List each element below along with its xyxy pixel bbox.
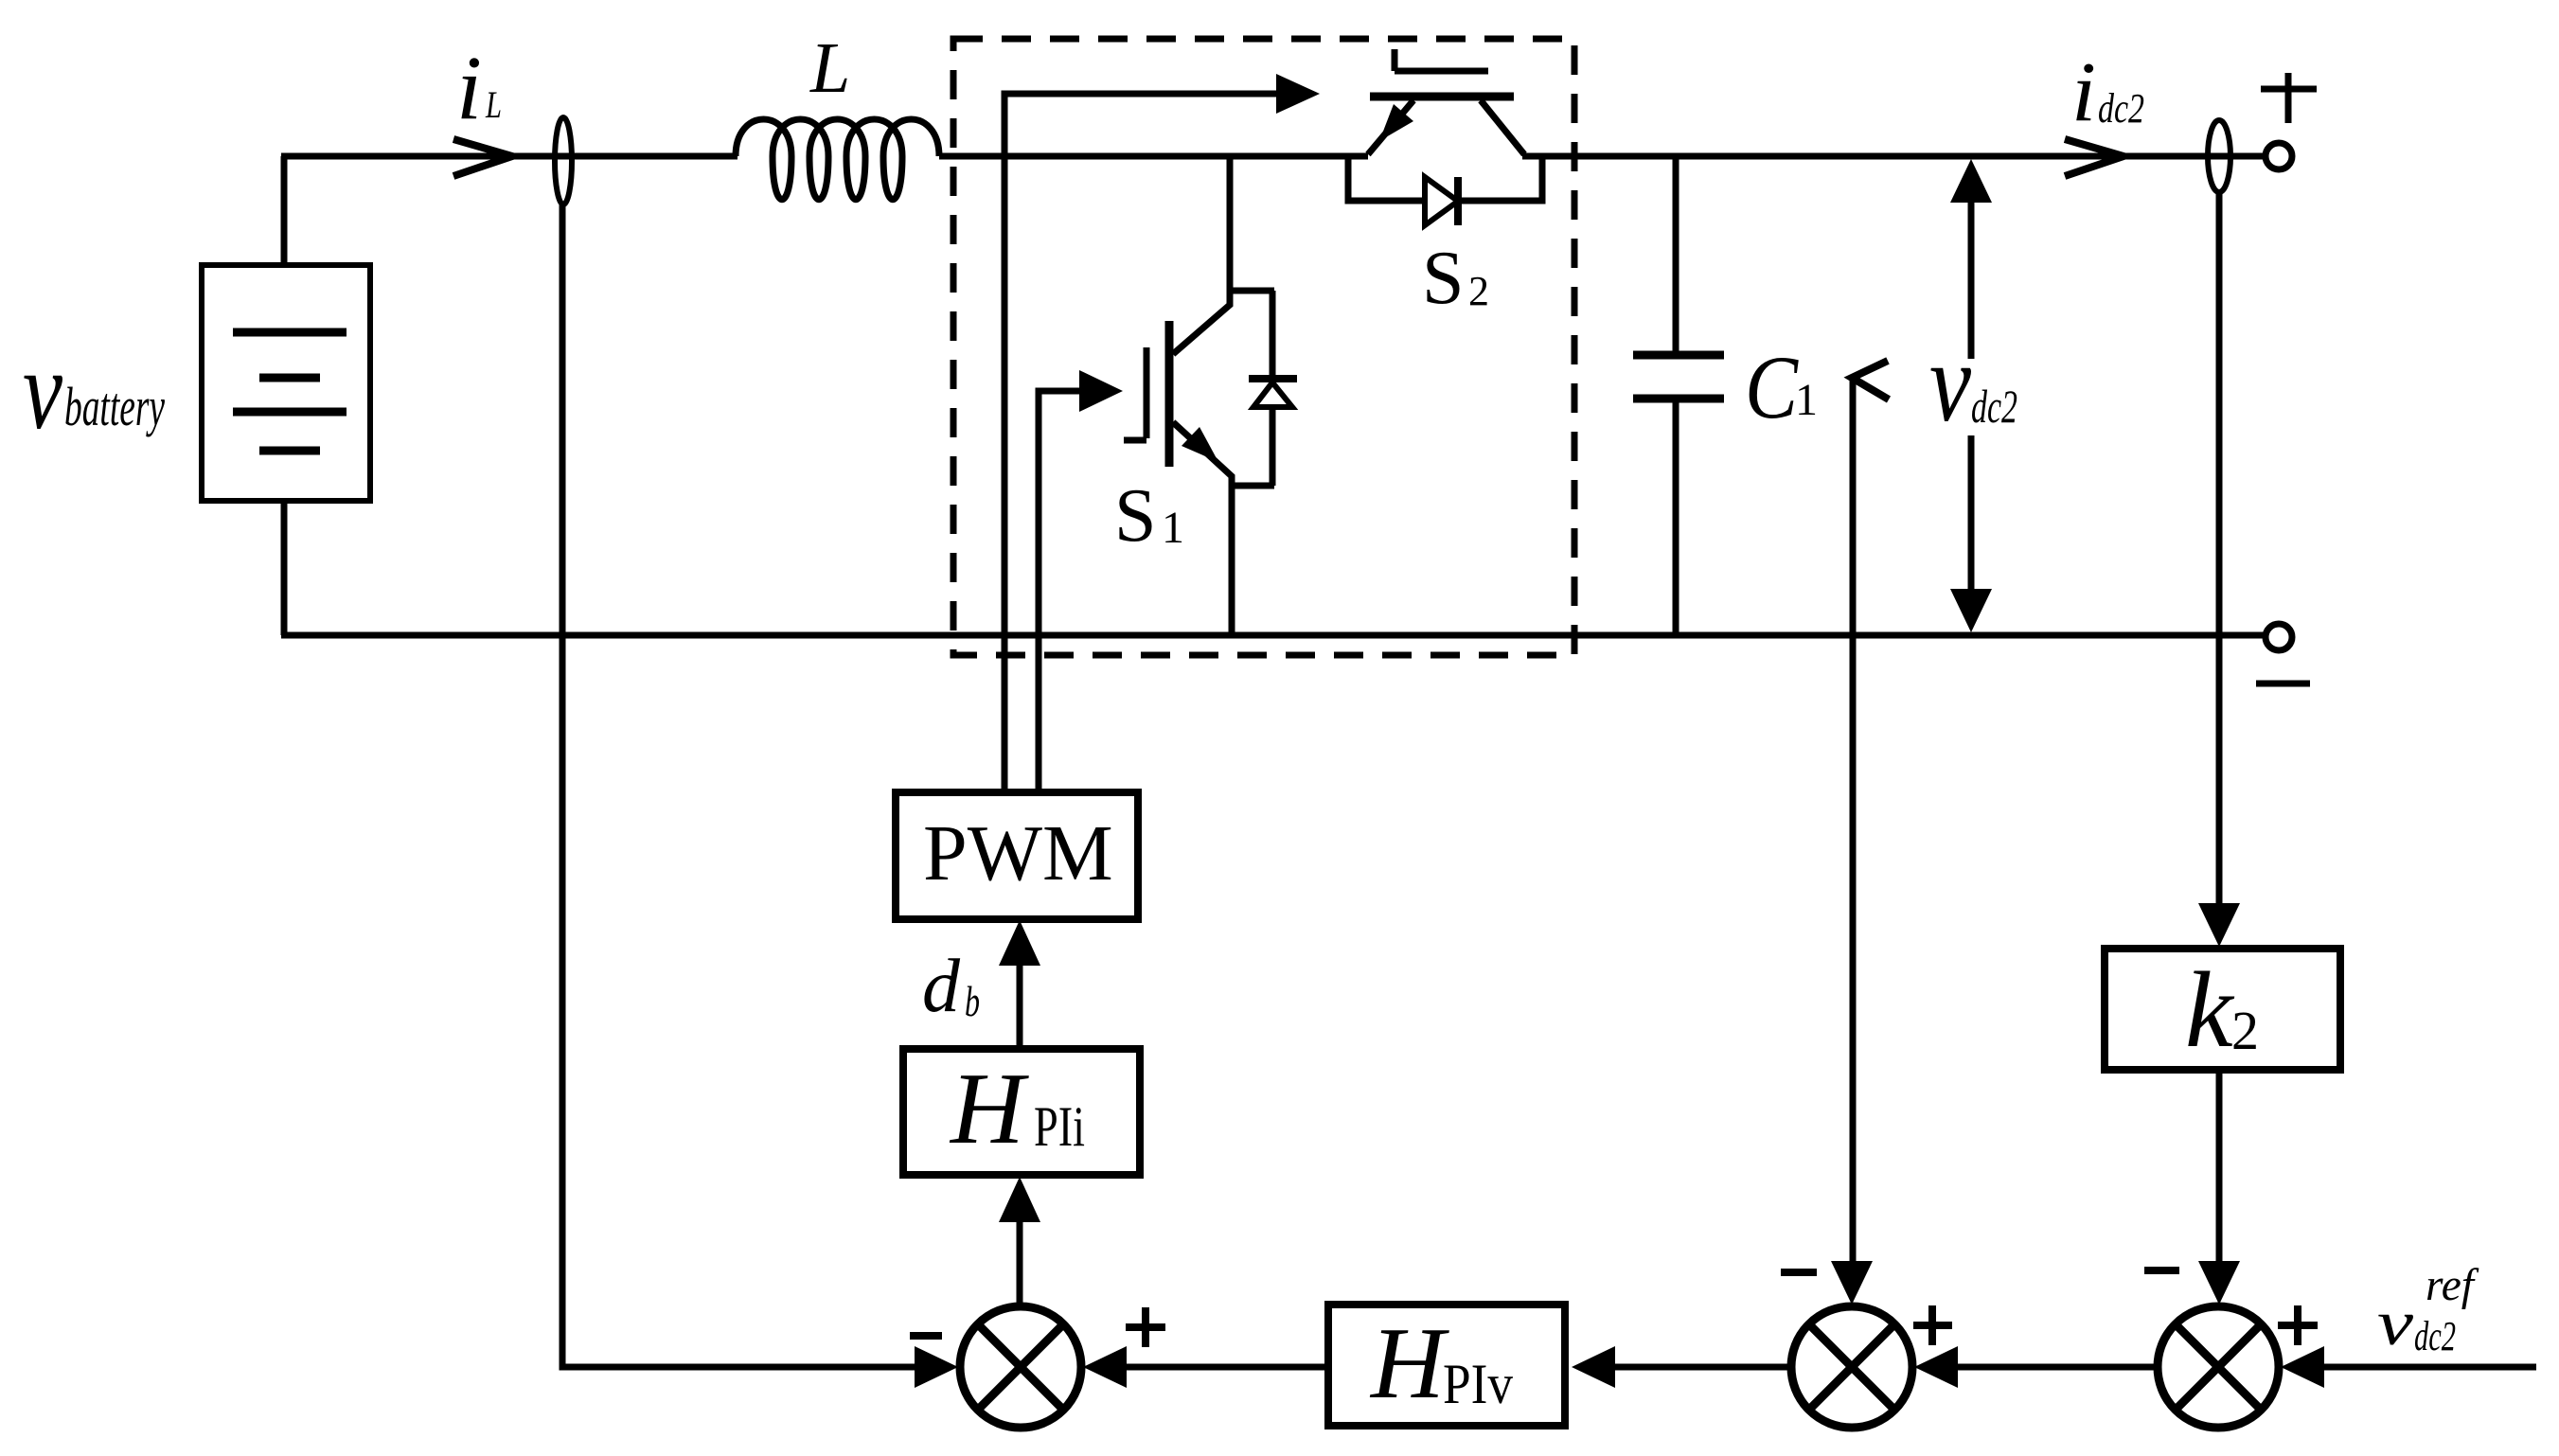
arrowhead into S_i left bbox=[915, 1346, 958, 1388]
wire top bus inductor to S2 bbox=[939, 153, 1368, 160]
capacitor C1 bbox=[1633, 156, 1724, 635]
svg-text:C: C bbox=[1745, 337, 1799, 437]
vdc2 sense tap arrow bbox=[1852, 361, 1889, 400]
arrowhead into HPIv bbox=[1572, 1346, 1615, 1388]
wire vdc2 ref input bbox=[2324, 1364, 2536, 1371]
label plus at S_v bbox=[1913, 1305, 1952, 1345]
svg-text:v: v bbox=[23, 327, 63, 453]
arrow idc2 current direction bbox=[2065, 139, 2124, 176]
wire iL feedback to S_i bbox=[562, 204, 915, 1367]
transistor S2 (IGBT) bbox=[1368, 49, 1524, 154]
arrow iL current direction bbox=[453, 139, 512, 176]
summing junction S_v bbox=[1791, 1306, 1912, 1428]
wire battery bottom lead bbox=[281, 501, 288, 635]
label plus bbox=[2261, 73, 2317, 123]
svg-text:PIv: PIv bbox=[1443, 1353, 1513, 1415]
svg-text:1: 1 bbox=[1162, 503, 1184, 553]
arrowhead k2 into S_ref bbox=[2198, 1261, 2240, 1305]
label plus at S_i bbox=[1126, 1307, 1165, 1347]
arrowhead to S2 gate bbox=[1276, 74, 1320, 114]
svg-text:2: 2 bbox=[2231, 1000, 2259, 1061]
arrowhead into S_i right bbox=[1083, 1346, 1127, 1388]
arrowhead into k2 bbox=[2198, 903, 2240, 947]
svg-text:dc2: dc2 bbox=[2414, 1313, 2456, 1359]
arrowhead ref into S_ref bbox=[2281, 1346, 2324, 1388]
arrow into HPIi from summer bbox=[1017, 1222, 1023, 1305]
wire S_ref output to S_v bbox=[1958, 1364, 2156, 1371]
svg-text:PIi: PIi bbox=[1034, 1095, 1085, 1158]
svg-text:H: H bbox=[1369, 1307, 1449, 1420]
wire S_v output to HPIv bbox=[1615, 1364, 1789, 1371]
diode D1 (anti-parallel with S1) bbox=[1230, 291, 1297, 486]
wire HPIv output to S_i bbox=[1127, 1364, 1328, 1371]
svg-text:k: k bbox=[2185, 950, 2235, 1070]
label minus at S_ref bbox=[2144, 1267, 2179, 1274]
arrowhead into S_v right bbox=[1914, 1346, 1958, 1388]
summing junction S_ref bbox=[2158, 1306, 2279, 1428]
terminal - (bottom right) bbox=[2266, 624, 2292, 650]
wire top bus right segment bbox=[1522, 153, 2266, 160]
block HPIi bbox=[903, 1049, 1140, 1175]
svg-text:v: v bbox=[1929, 319, 1972, 445]
svg-text:d: d bbox=[922, 945, 961, 1028]
transistor S1 (IGBT) bbox=[1124, 156, 1232, 635]
svg-text:H: H bbox=[949, 1053, 1029, 1165]
svg-text:i: i bbox=[456, 37, 482, 138]
wire gate drive to S2 (from PWM) bbox=[1004, 94, 1278, 792]
svg-text:b: b bbox=[965, 977, 980, 1025]
wire top bus battery to inductor bbox=[281, 153, 737, 160]
battery Vbattery bbox=[202, 265, 370, 501]
wire gate drive to S1 (from PWM) bbox=[1039, 391, 1081, 792]
arrowhead to S1 gate bbox=[1079, 370, 1123, 412]
label minus at S_i bbox=[910, 1332, 942, 1340]
wire bottom bus bbox=[281, 632, 2265, 639]
terminal + (top right) bbox=[2266, 143, 2292, 169]
svg-text:dc2: dc2 bbox=[1971, 380, 2017, 433]
block HPIv bbox=[1328, 1305, 1565, 1426]
block PWM bbox=[896, 792, 1138, 919]
arrowhead vdc2 into S_v bbox=[1831, 1261, 1873, 1305]
svg-text:ref: ref bbox=[2426, 1260, 2479, 1310]
label plus at S_ref bbox=[2278, 1305, 2318, 1345]
wire k2 output to S_ref bbox=[2216, 1070, 2223, 1261]
diode D2 (anti-parallel with S2) bbox=[1348, 156, 1542, 225]
current sensor (iL) bbox=[555, 117, 572, 204]
vdc2 measuring double arrow bbox=[1950, 159, 1992, 632]
svg-text:L: L bbox=[809, 28, 850, 108]
svg-text:v: v bbox=[2377, 1287, 2414, 1358]
svg-text:1: 1 bbox=[1795, 375, 1818, 425]
svg-text:battery: battery bbox=[64, 376, 165, 437]
label minus at S_v bbox=[1781, 1269, 1817, 1276]
current sensor (idc2) bbox=[2208, 120, 2230, 192]
arrow db into PWM bbox=[1017, 966, 1023, 1049]
dashed converter box bbox=[953, 39, 1574, 655]
wire vdc2 sense line down to summer bbox=[1850, 379, 1857, 1261]
wire battery top lead to top bus bbox=[281, 156, 288, 265]
svg-text:L: L bbox=[485, 83, 502, 126]
block k2 bbox=[2105, 949, 2340, 1070]
inductor L bbox=[736, 119, 939, 200]
svg-text:S: S bbox=[1114, 474, 1157, 558]
wire idc2 sense line down to k2 bbox=[2216, 192, 2223, 905]
svg-text:S: S bbox=[1422, 237, 1465, 320]
label minus bbox=[2256, 681, 2310, 687]
svg-text:i: i bbox=[2071, 45, 2096, 139]
summing junction S_i bbox=[960, 1306, 1081, 1428]
svg-text:2: 2 bbox=[1468, 268, 1489, 314]
svg-text:dc2: dc2 bbox=[2098, 85, 2144, 132]
svg-text:PWM: PWM bbox=[923, 809, 1113, 897]
